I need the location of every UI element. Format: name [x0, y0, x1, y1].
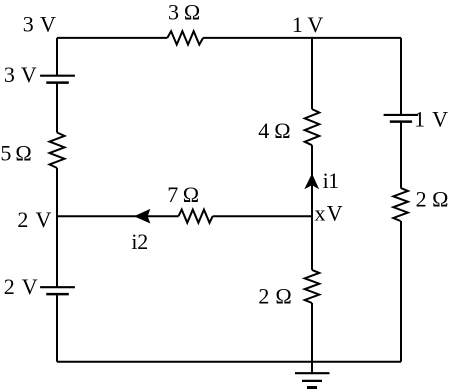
- svg-text:7Ω: 7Ω: [167, 182, 199, 207]
- wire bottom (bottom-left corner to bottom-right corner): [57, 361, 401, 363]
- wire top right segment (3 ohm through node 1V to top-right corner): [203, 37, 401, 39]
- ground bar 2: [302, 380, 322, 382]
- wire left (3V battery to 5 ohm): [56, 83, 58, 133]
- ground bar 3 (smallest): [307, 386, 317, 389]
- ground bar 1 (widest): [295, 372, 330, 374]
- resistor 7 ohm (middle horizontal wire): [179, 210, 213, 223]
- battery 1V short plate: [390, 120, 412, 123]
- svg-text:xV: xV: [315, 201, 343, 226]
- wire middle horizontal (node 2V to 7 ohm, carries arrow i2): [57, 215, 179, 217]
- svg-text:3V: 3V: [23, 12, 56, 37]
- svg-text:2Ω: 2Ω: [258, 283, 291, 308]
- resistor 2 ohm (middle lower branch): [305, 270, 320, 303]
- wire left (5 ohm through node 2V to 2V battery): [56, 168, 58, 287]
- svg-text:3Ω: 3Ω: [168, 0, 200, 24]
- arrow i2 (current left on middle horizontal wire): [134, 209, 150, 224]
- resistor 3 ohm (top wire): [167, 31, 203, 44]
- wire left lower (2V battery to bottom-left corner): [56, 294, 58, 362]
- wire right (1V battery to 2 ohm): [400, 122, 402, 188]
- svg-text:4Ω: 4Ω: [258, 118, 290, 143]
- battery 2V long plate: [40, 286, 75, 288]
- arrow i1 (current up middle branch): [304, 173, 319, 189]
- resistor 2 ohm (right wire): [393, 188, 408, 221]
- svg-text:i2: i2: [131, 229, 148, 254]
- svg-text:2Ω: 2Ω: [416, 187, 449, 212]
- wire middle vertical (node xV down to 2 ohm): [311, 216, 313, 270]
- svg-text:5Ω: 5Ω: [0, 140, 31, 165]
- wire middle horizontal (7 ohm to node xV): [213, 215, 312, 217]
- wire middle vertical (4 ohm through arrow i1 to node xV): [311, 145, 313, 216]
- wire left upper (corner down to 3V battery): [56, 38, 58, 76]
- wire middle vertical lower (2 ohm to bottom wire): [311, 303, 313, 362]
- battery 2V short plate: [46, 293, 69, 296]
- wire right upper (top-right corner to 1V battery): [400, 38, 402, 115]
- svg-text:1V: 1V: [292, 12, 324, 37]
- battery 3V long plate: [40, 75, 75, 77]
- svg-text:i1: i1: [323, 168, 340, 193]
- battery 1V long plate: [384, 114, 419, 116]
- wire top left segment (node 3V to 3 ohm): [57, 37, 167, 39]
- battery 3V short plate: [46, 81, 69, 84]
- resistor 5 ohm (left wire): [50, 133, 65, 168]
- wire middle vertical upper (node 1V down to 4 ohm): [311, 38, 313, 109]
- wire right lower (2 ohm to bottom-right corner): [400, 221, 402, 362]
- ground stem: [311, 362, 313, 373]
- resistor 4 ohm (middle branch): [305, 109, 320, 145]
- svg-text:3V: 3V: [4, 62, 37, 87]
